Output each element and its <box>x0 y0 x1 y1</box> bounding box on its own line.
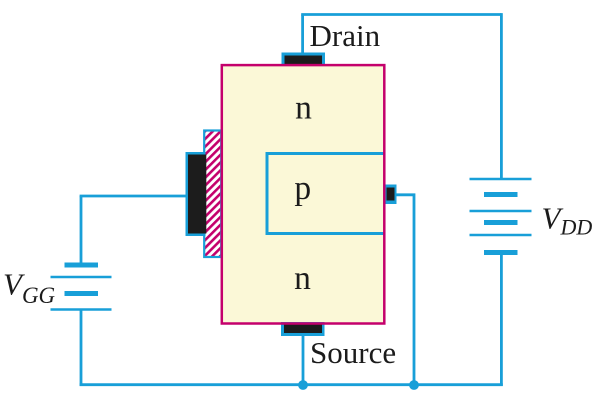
svg-text:Drain: Drain <box>310 18 381 53</box>
wire: VGG top vertical <box>80 196 83 265</box>
body border (magenta) <box>222 65 384 323</box>
junction node: p-contact to bottom wire <box>409 380 419 390</box>
gate depletion hatched strip <box>204 131 221 258</box>
p-region gate contact (right) <box>385 185 397 205</box>
semiconductor body (n channel block) <box>222 65 384 323</box>
svg-text:p: p <box>294 170 311 207</box>
svg-text:n: n <box>294 260 311 297</box>
wire: drain vertical lead <box>301 15 304 55</box>
svg-text:VGG: VGG <box>3 267 56 308</box>
wire: source vertical lead <box>302 335 305 385</box>
svg-text:VDD: VDD <box>542 200 593 239</box>
svg-text:n: n <box>295 89 312 126</box>
drain metal contact <box>282 53 326 67</box>
gate metal contact <box>186 152 207 236</box>
wire: bottom horizontal return <box>80 383 503 386</box>
battery VDD <box>470 179 532 253</box>
wire: VGG bottom vertical <box>80 310 83 386</box>
source metal contact <box>281 322 325 336</box>
wire: VDD bottom vertical <box>500 253 503 386</box>
p region box <box>267 154 385 234</box>
svg-text:Source: Source <box>310 335 396 370</box>
battery VGG <box>51 265 112 310</box>
wire: VDD top vertical <box>500 13 503 179</box>
junction node: source to bottom wire <box>298 380 308 390</box>
wire: top horizontal run to VDD <box>301 13 501 16</box>
wire: p-contact lead <box>396 195 415 385</box>
wire: gate horizontal lead <box>80 195 187 198</box>
